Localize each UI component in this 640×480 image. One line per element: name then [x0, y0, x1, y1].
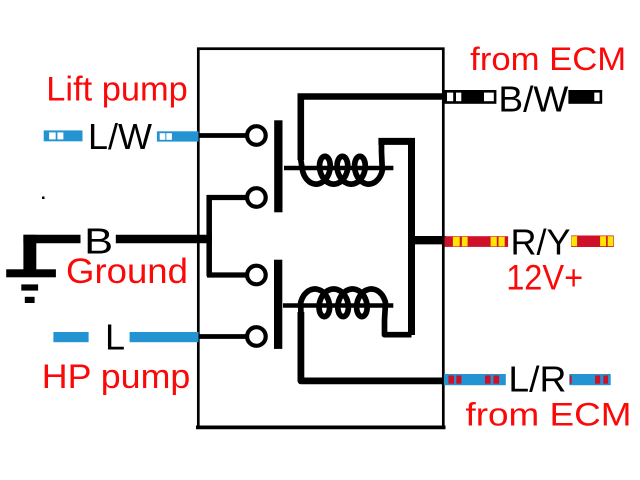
svg-text:from ECM: from ECM: [466, 397, 632, 433]
svg-text:12V+: 12V+: [506, 259, 583, 298]
svg-text:L/W: L/W: [88, 116, 152, 157]
svg-text:R/Y: R/Y: [511, 222, 571, 263]
svg-text:Ground: Ground: [66, 252, 188, 291]
svg-text:HP pump: HP pump: [42, 358, 191, 396]
svg-text:from ECM: from ECM: [470, 41, 626, 77]
svg-text:B/W: B/W: [498, 79, 568, 120]
svg-text:Lift pump: Lift pump: [46, 71, 188, 109]
svg-text:L/R: L/R: [508, 358, 566, 399]
svg-text:L: L: [105, 317, 125, 358]
